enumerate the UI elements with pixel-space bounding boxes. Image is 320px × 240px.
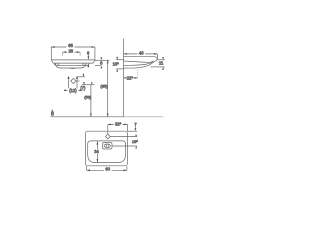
dim 28 line bbox=[63, 51, 81, 53]
plan outer rect bbox=[85, 131, 127, 166]
basin side top rim bbox=[124, 56, 158, 59]
basin bowl front lower edge bbox=[55, 63, 86, 68]
svg-text:34: 34 bbox=[94, 149, 99, 154]
dim 28 arrows bbox=[63, 51, 81, 53]
dim 48 text bbox=[137, 51, 145, 55]
basin side bowl bottom curve bbox=[124, 61, 154, 65]
basin drain curve bbox=[70, 67, 76, 70]
dim 13 upper ref stub bbox=[116, 59, 124, 61]
dim 32 extension bbox=[126, 124, 128, 131]
dim 32 line bbox=[108, 123, 128, 125]
bowl edge level reference stub bbox=[95, 65, 101, 67]
basin front rim bottom bbox=[53, 62, 93, 64]
basin side front apron bbox=[124, 60, 158, 69]
dim 7 lower arrow bbox=[135, 135, 137, 137]
dim 11 upper ref stub bbox=[157, 59, 164, 61]
dim (53) vertical line bbox=[90, 85, 92, 117]
dim (85) bottom arrow bbox=[107, 114, 109, 117]
dim 32 text bbox=[114, 122, 123, 126]
detail extension line right bbox=[76, 77, 78, 90]
dim 8 lower arrow bbox=[100, 66, 102, 69]
dim 11 lower ref line bbox=[151, 66, 165, 68]
dim 13 lower arrow bbox=[116, 69, 118, 72]
svg-text:11: 11 bbox=[159, 61, 164, 66]
svg-text:8: 8 bbox=[51, 112, 54, 118]
svg-text:(7): (7) bbox=[80, 86, 86, 91]
dim 11 lower arrow bbox=[162, 67, 164, 70]
svg-text:48: 48 bbox=[139, 50, 144, 55]
svg-text:(85): (85) bbox=[100, 83, 108, 88]
dim 34 line bbox=[96, 141, 98, 162]
basin bowl front upper edge bbox=[54, 63, 89, 66]
dim 13 upper arrow bbox=[116, 57, 118, 60]
dim (12) line bbox=[64, 89, 81, 91]
dim 60 text bbox=[104, 167, 112, 171]
tap hole diamond bbox=[71, 78, 76, 83]
dim 22 line bbox=[124, 77, 138, 79]
diamond level line bbox=[110, 136, 137, 138]
svg-text:32*: 32* bbox=[115, 122, 122, 127]
bottom reference line bbox=[50, 116, 123, 118]
svg-text:15³: 15³ bbox=[132, 139, 138, 144]
svg-text:65: 65 bbox=[68, 43, 73, 48]
bottom reference line right part bbox=[124, 116, 164, 118]
plan top edge right stub bbox=[127, 130, 137, 132]
svg-text:28: 28 bbox=[68, 49, 73, 54]
dim (12) text bbox=[68, 88, 78, 92]
dim 65 extension left bbox=[50, 47, 52, 60]
basin front rim right chamfer bbox=[93, 60, 95, 63]
detail extension arrow left bbox=[67, 76, 69, 79]
basin front rim left chamfer bbox=[51, 60, 53, 63]
detail extension arrow right bbox=[76, 76, 78, 79]
rim level reference line bbox=[95, 59, 110, 61]
dim 28 extension ticks bbox=[62, 52, 64, 56]
dim 32 arrows bbox=[108, 124, 128, 126]
plan inner basin outline bbox=[88, 141, 126, 163]
svg-text:22*: 22* bbox=[127, 75, 134, 80]
dim (85) top arrow bbox=[107, 60, 109, 63]
dim 34 arrows bbox=[97, 141, 99, 162]
dim 15 lower arrow bbox=[135, 146, 137, 148]
diamond right dash bbox=[76, 80, 80, 82]
dim 28 text bbox=[67, 49, 74, 53]
dim 48 extension right bbox=[156, 54, 158, 59]
dim 11 upper arrow bbox=[162, 57, 164, 60]
dim 65 line bbox=[51, 46, 95, 48]
plan diamond bbox=[105, 134, 110, 139]
svg-text:60: 60 bbox=[105, 167, 110, 172]
dim (85) vertical line bbox=[107, 60, 109, 116]
dim 6 upper arrow bbox=[88, 56, 90, 59]
dim 34 text bbox=[94, 149, 101, 153]
dim 60 extension right bbox=[126, 166, 128, 170]
detail extension line left bbox=[68, 77, 70, 90]
fixing hole right bbox=[83, 64, 85, 66]
dim 6 lower arrow bbox=[88, 64, 90, 67]
basin front rim top bbox=[51, 59, 95, 61]
fixing hole left bbox=[57, 63, 59, 65]
dim 60 extension left bbox=[86, 166, 88, 170]
dim 8 upper arrow bbox=[100, 57, 102, 60]
dim 48 line bbox=[124, 53, 158, 55]
tap bench oval bar 1 bbox=[105, 144, 107, 147]
svg-text:(12): (12) bbox=[69, 88, 77, 93]
svg-text:(53): (53) bbox=[84, 95, 92, 100]
dim 48 arrows bbox=[124, 53, 158, 55]
dim (7) lower ref line bbox=[82, 84, 95, 86]
dim (53) top arrow bbox=[91, 82, 93, 84]
dim (7) upper ref line bbox=[77, 76, 85, 78]
tap bench level line bbox=[112, 145, 137, 147]
wall line bbox=[123, 39, 125, 117]
dim 65 arrows bbox=[51, 46, 95, 48]
dim 22 text bbox=[126, 76, 133, 80]
dim 22 arrows bbox=[124, 77, 138, 79]
dim 22 extension bbox=[137, 69, 139, 78]
dim 65 text bbox=[67, 43, 75, 47]
dim 60 arrows bbox=[87, 169, 127, 171]
dim 65 extension right bbox=[94, 47, 96, 60]
footnote glyph accent bbox=[52, 110, 53, 111]
tap bench oval bbox=[104, 144, 110, 148]
dim (53) bottom arrow bbox=[90, 114, 92, 117]
svg-text:13*: 13* bbox=[113, 62, 120, 67]
dim 13 lower ref stub bbox=[116, 68, 124, 70]
plan centerline from above bbox=[107, 124, 109, 134]
basin side inner bowl line bbox=[124, 61, 154, 63]
dim 60 line bbox=[87, 169, 127, 171]
tap bench rounded rect bbox=[103, 143, 113, 150]
tap bench oval bar 2 bbox=[107, 144, 109, 147]
dim (12) arrows bbox=[64, 89, 81, 91]
dim (7) upper arrow bbox=[83, 74, 85, 77]
dim 7 upper arrow bbox=[135, 128, 137, 131]
dim (7) lower arrow bbox=[83, 82, 85, 85]
